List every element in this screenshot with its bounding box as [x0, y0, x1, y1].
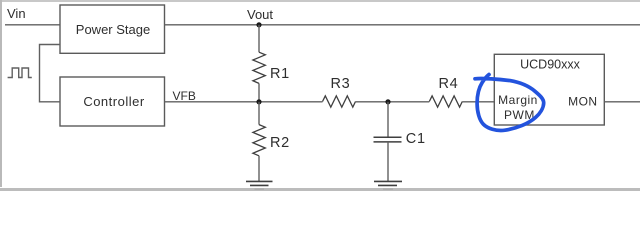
wire VFB rail [165, 101, 323, 103]
node junction Vout [256, 22, 261, 27]
svg-text:R3: R3 [331, 76, 351, 92]
node junction VFB / R1 / R2 [256, 99, 261, 104]
svg-text:R4: R4 [439, 76, 459, 92]
wire MON output [604, 101, 640, 103]
controller block [60, 77, 165, 126]
resistor R1 [253, 52, 265, 83]
svg-text:Margin: Margin [498, 93, 538, 107]
svg-text:Vout: Vout [247, 7, 273, 22]
frame left border [0, 0, 2, 187]
svg-text:UCD90xxx: UCD90xxx [520, 58, 580, 72]
power stage block [60, 5, 165, 53]
wire Vin input [5, 24, 60, 26]
svg-text:Controller: Controller [83, 94, 145, 109]
wire Vout top rail [165, 24, 640, 26]
ground below C1 [374, 181, 402, 189]
wire R2 bottom lead [258, 156, 260, 182]
op-amp / IC U1 UCD90xxx block [494, 54, 604, 125]
wire C1 bottom lead [387, 142, 389, 182]
annotation blue circle around Margin PWM [475, 75, 544, 131]
wire C1 top lead [387, 102, 389, 138]
resistor R4 [429, 96, 462, 107]
svg-text:MON: MON [568, 95, 598, 109]
svg-text:Vin: Vin [7, 6, 26, 21]
frame bottom border [0, 188, 640, 191]
wire power stage to controller feedback [40, 45, 61, 102]
wire R3 to C1 node [356, 101, 430, 103]
capacitor C1 [374, 137, 402, 142]
ground below R2 [246, 181, 273, 189]
PWM square-wave icon [8, 68, 32, 78]
wire R1 bottom lead [258, 83, 260, 101]
svg-text:C1: C1 [406, 131, 426, 147]
resistor R2 [253, 125, 265, 156]
svg-text:Power Stage: Power Stage [76, 22, 150, 37]
svg-text:VFB: VFB [173, 89, 196, 103]
node junction R3 / C1 / R4 [385, 99, 390, 104]
svg-text:R2: R2 [270, 135, 290, 151]
resistor R3 [323, 96, 356, 107]
frame top border [0, 0, 640, 2]
wire R4 to UCD90xxx [462, 101, 494, 103]
svg-text:R1: R1 [270, 66, 290, 82]
wire R1 top lead [258, 25, 260, 52]
wire R2 top lead [258, 102, 260, 125]
